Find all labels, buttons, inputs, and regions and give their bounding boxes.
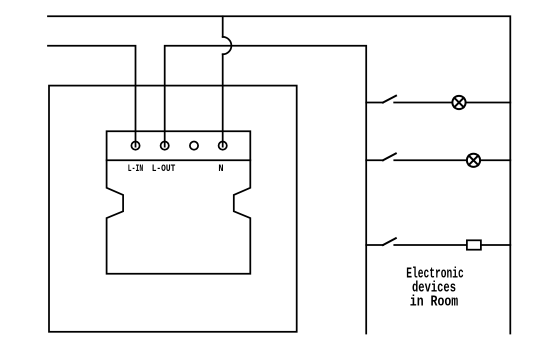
lamp E1 [452, 96, 465, 109]
wire hop over live wire [223, 37, 232, 54]
terminal circle unused [190, 142, 198, 150]
wire neutral supply top line [48, 16, 510, 333]
smart switch module U1 outline [107, 131, 251, 273]
switch S1 [366, 96, 452, 103]
svg-text:in Room: in Room [410, 294, 459, 310]
terminal strip separator line [107, 159, 251, 161]
wire lamp E2 to neutral [480, 159, 510, 161]
svg-text:N: N [218, 164, 223, 175]
room wall box [49, 86, 297, 332]
load box electronic devices [467, 240, 481, 249]
wire load box to neutral [481, 244, 510, 246]
wire N drop lower segment [222, 54, 224, 146]
svg-text:L-OUT: L-OUT [152, 164, 176, 175]
switch S2 [366, 154, 467, 161]
terminal circle L-IN [131, 142, 139, 150]
lamp E2 [467, 154, 480, 167]
svg-text:L-IN: L-IN [128, 164, 143, 175]
wire lamp E1 to neutral [466, 102, 511, 104]
wire live supply to L-IN [48, 46, 136, 147]
wire N drop upper segment [222, 16, 224, 37]
terminal circle L-OUT [161, 142, 169, 150]
wire L-OUT up and right to loads [165, 46, 367, 334]
terminal circle N [219, 142, 227, 150]
switch S3 [366, 238, 467, 245]
